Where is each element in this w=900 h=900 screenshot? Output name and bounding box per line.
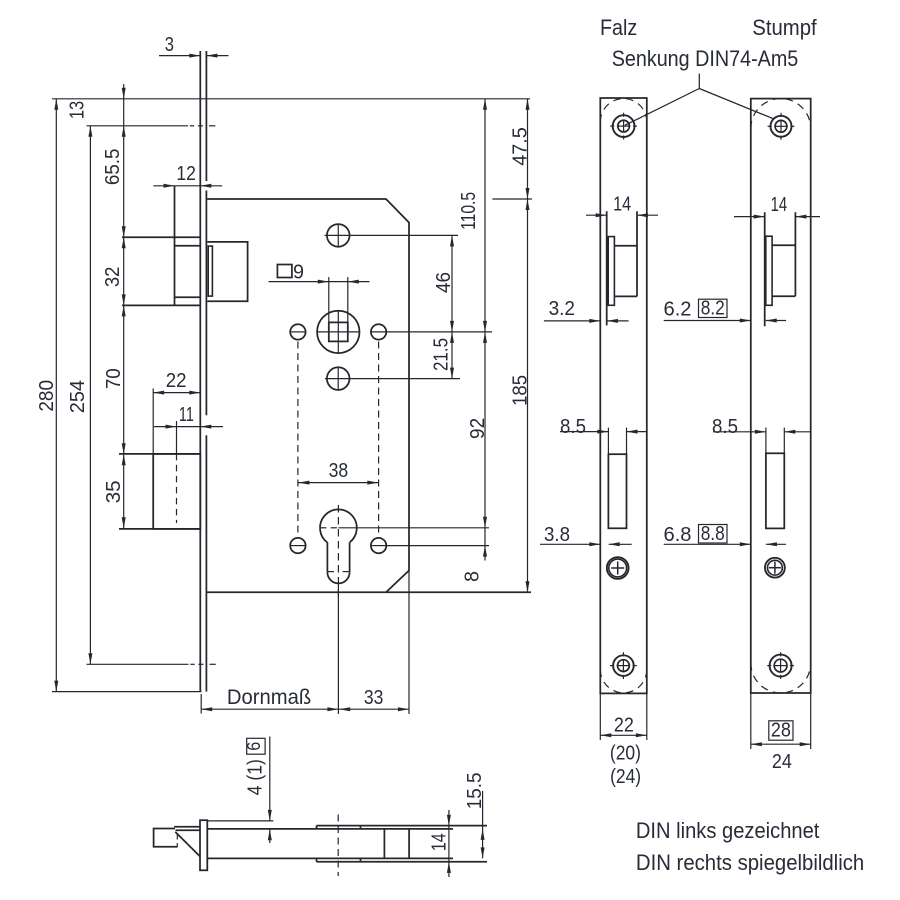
dimension 46 label [432, 272, 455, 293]
Stumpf dimension 24 line [751, 742, 811, 746]
Stumpf latch bolt rect [772, 245, 795, 296]
Stumpf label [752, 15, 817, 40]
side view cylinder pocket lines [384, 829, 409, 859]
latch bolt head top [175, 245, 201, 247]
dimension 280 line [54, 99, 58, 692]
lock case right edge 33-extension [408, 571, 410, 715]
svg-text:15.5: 15.5 [463, 773, 486, 810]
latch cutout top line [122, 236, 200, 238]
Falz dimension 3.2 line [544, 319, 629, 323]
dimension 32 label [101, 267, 124, 288]
Stumpf bottom rounded-corner dashed arc [751, 663, 811, 693]
dimension 21.5 label [430, 338, 453, 371]
svg-text:46: 46 [432, 272, 455, 293]
Falz dimension 3.8 label [544, 523, 570, 546]
dimension Dornmass label [227, 685, 311, 709]
svg-text:6.8: 6.8 [664, 523, 692, 546]
lock case bottom edge and 185-extension [206, 591, 531, 593]
dimension 110.5 label [457, 192, 480, 230]
dimension 254 label [66, 380, 89, 413]
svg-text:254: 254 [66, 380, 89, 413]
Stumpf boxed 8.2 label [701, 297, 725, 320]
Stumpf dimension 8.5 label [712, 415, 738, 438]
svg-text:92: 92 [466, 418, 489, 439]
deadbolt extension top line [119, 453, 200, 455]
boxed 6 label [244, 742, 264, 751]
deadbolt dashed centerline [176, 454, 178, 523]
svg-text:185: 185 [509, 375, 532, 406]
svg-text:3.8: 3.8 [544, 523, 570, 546]
dimension 70 label [102, 368, 125, 389]
svg-text:28: 28 [771, 719, 791, 742]
Stumpf latch cutout right edge [794, 212, 796, 296]
extension line below cylinder axis [337, 583, 339, 714]
dimension line x=527.5 (47.5 / 185) [526, 99, 530, 593]
side view latch bevel [175, 832, 200, 856]
note DIN rechts spiegelbildlich [636, 850, 864, 875]
Stumpf top rounded-corner dashed arc [751, 99, 811, 129]
svg-text:110.5: 110.5 [457, 192, 480, 230]
latch bolt left edge / 12-extension [174, 186, 176, 306]
dimension 3 label [165, 33, 174, 56]
Stumpf dimension 14 line [734, 215, 820, 219]
Falz dimension 22 line [600, 733, 647, 737]
svg-text:65.5: 65.5 [101, 149, 124, 186]
dimension 65.5 label [101, 149, 124, 186]
dimension 11 line [154, 425, 223, 429]
right follower screw circle [371, 324, 386, 339]
latch body rectangle behind plate [207, 242, 247, 301]
svg-text:14: 14 [771, 193, 788, 216]
svg-text:Stumpf: Stumpf [752, 15, 817, 40]
dimension 15.5 line [481, 791, 485, 858]
Stumpf countersunk screw [765, 558, 785, 578]
dimension line x=452 (46 / 21.5) [450, 235, 454, 378]
svg-text:Senkung DIN74-Am5: Senkung DIN74-Am5 [612, 46, 799, 71]
dimension 35 label [102, 480, 125, 503]
side view latch tip rect [154, 829, 178, 847]
svg-text:6: 6 [244, 742, 264, 751]
extension line at y=125.8 with dash over faceplate [87, 125, 216, 127]
Stumpf dimension 6.8 label [664, 523, 692, 546]
dimension 22 deadbolt line [153, 391, 200, 395]
right cylinder screw circle [371, 538, 386, 553]
svg-text:24: 24 [772, 750, 792, 773]
dimension 12 label [176, 162, 196, 185]
cylinder screws centerline [290, 545, 489, 547]
Falz top screw hole [610, 113, 637, 140]
extension tick at y=199 for 47.5/185 [492, 198, 532, 200]
cylinder hole circle [320, 509, 357, 542]
dimension 38 line [298, 481, 378, 485]
cylinder slot bottom arc [327, 572, 349, 583]
svg-text:8.2: 8.2 [701, 297, 725, 320]
svg-text:12: 12 [176, 162, 196, 185]
svg-text:21.5: 21.5 [430, 338, 453, 371]
lower handle hole circle [327, 367, 350, 390]
side view latch centerline dashes [176, 835, 178, 848]
follower circle [317, 311, 359, 353]
Stumpf bottom screw hole [767, 652, 794, 679]
follower vertical centerline [337, 312, 339, 354]
Falz dimension 8.5 label [560, 415, 586, 438]
Falz dimension 14 label [613, 193, 631, 216]
dimension 33 label [364, 686, 384, 709]
left cylinder screw circle [290, 538, 305, 553]
extension line: top edge of lock (y=98.8) [52, 98, 530, 100]
Falz countersunk screw [607, 557, 629, 579]
lower handle hole centerlines [325, 368, 460, 390]
follower square extension lines [329, 277, 348, 322]
svg-text:32: 32 [101, 267, 124, 288]
dimension 92 label [466, 418, 489, 439]
dimension 13 label [66, 101, 89, 119]
svg-text:(20): (20) [610, 743, 641, 765]
dimension 14 side line [447, 810, 451, 877]
Falz bottom screw hole [610, 652, 637, 679]
Falz dimension 22 label [614, 713, 634, 736]
dimension 4 (1) label [244, 759, 267, 795]
Stumpf bottom extension lines [751, 693, 811, 749]
Stumpf dimension 6.8 8.8 line [664, 542, 786, 546]
dimension 8 label [461, 571, 484, 582]
Stumpf top screw hole [768, 113, 795, 140]
cylinder bottom arc center ticks [328, 571, 349, 573]
Falz latch bolt rect [614, 246, 637, 297]
side view latch shaft strip [174, 827, 200, 831]
Senkung DIN74-Am5 label [612, 46, 799, 71]
Stumpf boxed 8.8 box [699, 525, 728, 544]
dimension 254 line [88, 126, 92, 665]
dimension 9 (square) lines [269, 280, 370, 284]
Stumpf dimension 6.2 label [664, 298, 692, 321]
svg-text:35: 35 [102, 480, 125, 503]
Stumpf deadbolt cutout rect [766, 453, 784, 528]
lock case top edge and chamfer [206, 199, 409, 592]
svg-text:14: 14 [613, 193, 631, 216]
note DIN links gezeichnet [636, 818, 820, 843]
extension line at y=691.6 (bottom of faceplate) [52, 691, 202, 693]
dimension 4(1) leader line [268, 737, 272, 844]
faceplate front line [199, 51, 201, 692]
Stumpf dimension 14 label [771, 193, 788, 216]
Stumpf boxed 28 label [771, 719, 791, 742]
Falz top rounded-corner dashed arc [600, 99, 647, 122]
svg-text:(24): (24) [610, 766, 641, 788]
Stumpf latch step rect [766, 236, 772, 305]
svg-text:22: 22 [614, 713, 634, 736]
Falz latch cutout right edge [636, 211, 638, 296]
side view case top line [207, 828, 453, 830]
Falz bottom rounded-corner dashed arc [600, 670, 647, 693]
faceplate back line [205, 51, 207, 692]
side view bottom boss strip [317, 858, 488, 861]
Senkung leader lines [625, 74, 773, 126]
dimension 38 label [329, 459, 349, 482]
Stumpf boxed 8.2 box [699, 299, 728, 317]
upper handle hole centerlines [325, 224, 459, 246]
side view follower axis dashed [337, 815, 339, 877]
svg-text:8.5: 8.5 [560, 415, 586, 438]
svg-text:47.5: 47.5 [508, 127, 531, 166]
side view extension of faceplate top [207, 820, 273, 822]
svg-text:DIN rechts spiegelbildlich: DIN rechts spiegelbildlich [636, 850, 864, 875]
cylinder vertical centerline [337, 505, 339, 597]
cylinder horizontal centerline [321, 527, 489, 529]
Stumpf deadbolt cutout extension lines [766, 428, 784, 454]
extension line below faceplate [200, 694, 202, 714]
latch narrow neck rectangle [208, 246, 212, 296]
svg-text:38: 38 [329, 459, 349, 482]
svg-text:9: 9 [293, 261, 304, 284]
deadbolt rectangle [153, 454, 200, 529]
svg-text:DIN links gezeichnet: DIN links gezeichnet [636, 818, 820, 843]
deadbolt centerline extension [176, 421, 178, 454]
Falz label [600, 15, 637, 40]
cylinder slot sides [327, 542, 349, 572]
Falz (24) label [610, 766, 641, 788]
svg-text:6.2: 6.2 [664, 298, 692, 321]
Falz deadbolt cutout rect [608, 454, 626, 528]
Stumpf dimension 6.2 8.2 line [664, 319, 786, 323]
follower square spindle hole [329, 322, 348, 341]
deadbolt extension line left [152, 389, 154, 456]
follower horizontal centerline [290, 331, 492, 333]
Falz bottom extension lines [600, 693, 647, 740]
dimension 22 deadbolt label [166, 369, 187, 392]
latch bolt head bottom [175, 296, 201, 298]
svg-text:8.8: 8.8 [701, 522, 725, 545]
square-9 label [293, 261, 304, 284]
svg-text:14: 14 [428, 833, 451, 851]
Stumpf dimension 24 label [772, 750, 792, 773]
dimension line x=485 (110.5 / 92 / 8) [483, 99, 487, 561]
Falz latch step rect [608, 237, 614, 306]
boxed 6 surface mark box [247, 738, 265, 754]
svg-text:11: 11 [179, 403, 194, 426]
svg-text:Dornmaß: Dornmaß [227, 685, 311, 709]
svg-text:22: 22 [166, 369, 187, 392]
svg-text:3: 3 [165, 33, 174, 56]
Falz latch cutout left edge [606, 211, 608, 325]
Stumpf boxed 28 box [769, 721, 793, 740]
dimension Dornmass/33 line [201, 707, 409, 711]
dimension chain line 13/65.5/32/70/35 [122, 84, 126, 528]
dimension 11 label [179, 403, 194, 426]
square-9 symbol [277, 265, 292, 278]
Stumpf dimension 8.5 line [713, 430, 811, 434]
svg-text:70: 70 [102, 368, 125, 389]
svg-text:3.2: 3.2 [549, 297, 575, 320]
side view case bottom line [207, 857, 453, 859]
dimension 47.5 label [508, 127, 531, 166]
dimension 14 side label [428, 833, 451, 851]
svg-text:Falz: Falz [600, 15, 637, 40]
svg-text:33: 33 [364, 686, 384, 709]
extension line at y=664.3 with dash over faceplate [87, 663, 216, 665]
upper handle hole circle [327, 224, 350, 247]
dimension 12 (latch width) [153, 184, 222, 188]
latch cutout bottom line [122, 304, 200, 306]
Falz dimension 14 line [586, 213, 658, 217]
dashed centerline left screw column [297, 342, 299, 538]
Falz deadbolt cutout extension lines [608, 428, 626, 455]
svg-text:8.5: 8.5 [712, 415, 738, 438]
dimension 15.5 label [463, 773, 486, 810]
dimension 185 label [509, 375, 532, 406]
Stumpf latch cutout left edge [764, 212, 766, 326]
Falz (20) label [610, 743, 641, 765]
Falz plate outline [600, 98, 647, 693]
left follower screw circle [290, 324, 305, 339]
Falz dimension 3.2 label [549, 297, 575, 320]
Falz dimension 8.5 line [560, 430, 648, 434]
deadbolt extension bottom line [119, 528, 200, 530]
dashed centerline right screw column [378, 342, 380, 538]
Falz dimension 3.8 line [540, 542, 632, 546]
dimension 280 label [35, 380, 58, 412]
Stumpf boxed 8.8 label [701, 522, 725, 545]
dimension 3 (faceplate thickness) [159, 54, 229, 58]
svg-text:8: 8 [461, 571, 484, 582]
svg-text:13: 13 [66, 101, 89, 119]
svg-text:280: 280 [35, 380, 58, 412]
Stumpf plate outline [751, 99, 811, 693]
svg-text:4 (1): 4 (1) [244, 759, 267, 795]
side view top boss strip [317, 826, 488, 829]
side view faceplate rect [200, 820, 207, 870]
